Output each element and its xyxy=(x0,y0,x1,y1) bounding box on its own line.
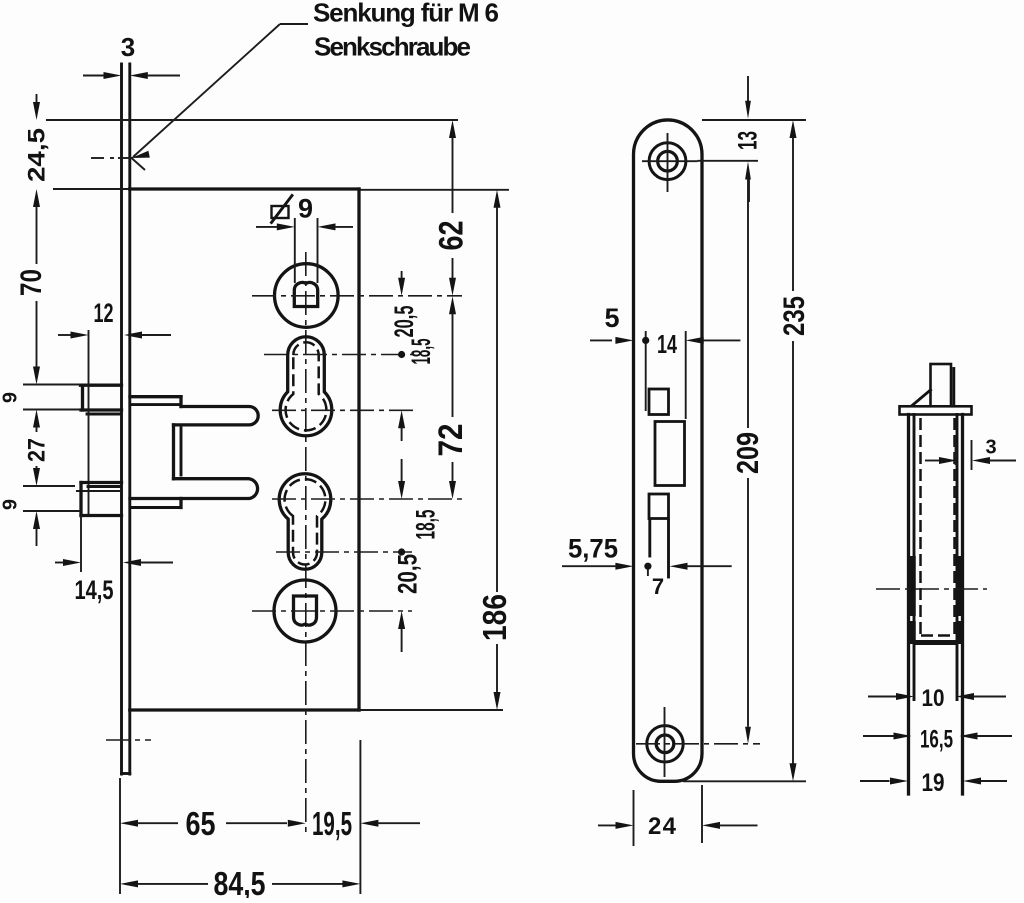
centre line of upper follower xyxy=(252,295,462,297)
dimension 19 xyxy=(860,769,1007,797)
right chain x=401.6 : 20,5 xyxy=(389,271,419,358)
bottom extension line of middle plate xyxy=(683,780,806,782)
top screw hole xyxy=(642,133,698,192)
svg-text:12: 12 xyxy=(94,298,114,328)
dimension 5 / 14 xyxy=(590,303,740,359)
svg-text:62: 62 xyxy=(433,221,471,251)
centre line upper cylinder cap xyxy=(264,354,412,356)
svg-text:19,5: 19,5 xyxy=(312,805,352,842)
lock case side walls xyxy=(909,415,963,795)
lower profile cylinder hole xyxy=(279,474,331,570)
svg-text:7: 7 xyxy=(652,574,664,599)
faceplate bottom centre line xyxy=(106,739,151,741)
svg-text:20,5: 20,5 xyxy=(393,554,423,594)
svg-text:14: 14 xyxy=(657,329,677,359)
svg-text:19: 19 xyxy=(922,769,945,797)
centre line lower cylinder cap xyxy=(276,551,412,553)
face plate outline (rounded ends) xyxy=(633,120,702,781)
centre line of lower follower xyxy=(252,610,412,612)
svg-text:186: 186 xyxy=(476,594,513,641)
dimension 209 xyxy=(730,179,765,744)
svg-text:9: 9 xyxy=(298,194,313,224)
dimension 13 xyxy=(733,76,763,202)
top extension line (faceplate top level) xyxy=(46,119,458,121)
centre line lower cylinder circle xyxy=(272,498,462,500)
top extension line of middle plate xyxy=(702,119,806,121)
latch cut-outs in face plate xyxy=(649,389,685,577)
left dimension chain x=36.5 : 24,5 xyxy=(24,94,51,182)
svg-text:72: 72 xyxy=(432,424,470,457)
dimension 27 xyxy=(24,410,51,487)
svg-text:70: 70 xyxy=(15,269,48,296)
dimension 3 (faceplate thickness) xyxy=(83,32,180,79)
upper tab xyxy=(130,395,181,398)
dimension 9 (dead bolt height) xyxy=(0,499,40,546)
face plate seen edge-on xyxy=(900,406,972,414)
dimension 20,5 lower xyxy=(393,554,423,652)
dimension 16,5 xyxy=(863,726,1012,754)
dimension 14,5 (dead bolt protrusion) xyxy=(55,559,173,605)
svg-text:24: 24 xyxy=(648,813,677,840)
svg-text:84,5: 84,5 xyxy=(214,865,266,898)
svg-text:Senkung für M 6: Senkung für M 6 xyxy=(313,0,499,28)
square-9 dimension (follower nut width) xyxy=(256,194,353,284)
svg-text:235: 235 xyxy=(778,296,811,336)
dimension 24 xyxy=(598,785,758,846)
countersink centre line on faceplate xyxy=(91,157,104,159)
extension: latch cut-out left edge xyxy=(645,331,647,411)
lock case outline xyxy=(53,189,509,710)
svg-text:20,5: 20,5 xyxy=(389,306,419,338)
svg-text:5: 5 xyxy=(604,303,619,333)
faceplate edge (vertical strip) xyxy=(122,64,130,774)
svg-text:3: 3 xyxy=(985,437,996,459)
svg-text:5,75: 5,75 xyxy=(568,534,618,564)
svg-text:Senkschraube: Senkschraube xyxy=(314,32,471,62)
hidden latch channel (dashed) xyxy=(921,418,955,636)
dimension 18,5 lower xyxy=(398,459,441,556)
latch bolt (protruding above plate) xyxy=(912,364,954,407)
dimension 72 xyxy=(432,296,470,499)
dimension 10 xyxy=(868,685,1006,712)
dimension 62 xyxy=(433,120,471,296)
latch bolt head (left of faceplate, upper flange) xyxy=(81,385,122,414)
svg-text:10: 10 xyxy=(922,685,945,712)
lower follower hole xyxy=(274,580,336,642)
dimension 18,5 upper xyxy=(398,339,436,442)
upper profile cylinder hole xyxy=(280,337,332,436)
svg-text:13: 13 xyxy=(733,131,763,150)
vertical centre line of hole column xyxy=(305,252,307,837)
svg-text:16,5: 16,5 xyxy=(920,726,953,754)
dead bolt head (left of faceplate, lower flange) xyxy=(76,483,122,516)
svg-text:24,5: 24,5 xyxy=(24,128,51,182)
screw centre extension for 13 xyxy=(698,160,759,162)
upper follower hole xyxy=(275,264,339,328)
bottom screw hole xyxy=(636,707,760,777)
svg-text:209: 209 xyxy=(730,432,765,474)
upper prong xyxy=(174,407,259,425)
extension: latch cut-out right edge xyxy=(685,331,687,419)
extension lines for 9 / 27 / 9 chain xyxy=(23,384,80,386)
lower tab xyxy=(130,506,180,509)
dimension 84,5 xyxy=(120,865,360,902)
svg-text:27: 27 xyxy=(24,438,51,462)
connector web xyxy=(172,425,175,479)
svg-text:18,5: 18,5 xyxy=(411,510,441,540)
svg-text:18,5: 18,5 xyxy=(406,339,436,365)
bottom dimension extension lines xyxy=(119,778,121,894)
svg-text:14,5: 14,5 xyxy=(75,575,114,605)
centre line upper cylinder circle xyxy=(272,409,416,411)
dimension 70 xyxy=(15,189,48,385)
svg-text:65: 65 xyxy=(186,805,216,842)
dimension 3 (faceplate stand-off) xyxy=(925,437,1016,471)
lower prong xyxy=(130,479,258,499)
dimension 235 xyxy=(778,120,811,781)
extension line x=81 down to 14,5 dimension xyxy=(80,516,82,573)
dimension 186 xyxy=(476,190,513,710)
dimension 12 (latch protrusion) xyxy=(58,298,171,339)
hidden edge line through flanges (12 mm extension) xyxy=(88,330,90,517)
dimension 65 xyxy=(120,805,306,842)
latch fork (follower fork) right of faceplate xyxy=(130,397,258,508)
centre line of case (horizontal) xyxy=(876,588,987,590)
svg-text:3: 3 xyxy=(121,32,135,62)
dimension 5,75 / 7 xyxy=(562,534,732,600)
leader: Senkung für M6 Senkschraube xyxy=(132,0,500,170)
dimension 19,5 xyxy=(312,805,420,842)
thick spring bars on walls xyxy=(913,556,960,644)
svg-text:9: 9 xyxy=(0,499,22,510)
svg-text:9: 9 xyxy=(0,392,22,403)
